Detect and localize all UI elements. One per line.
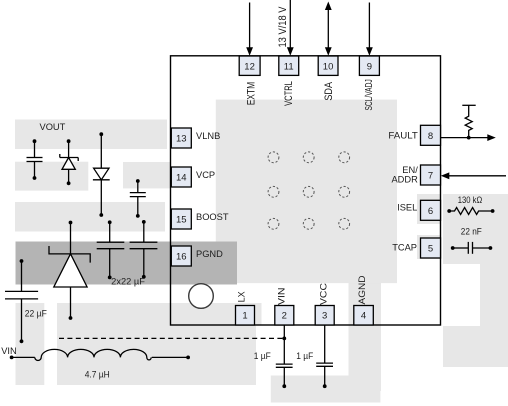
PCB copper pour regions (background shading) — [15, 100, 508, 403]
pin 12 box — [239, 56, 260, 75]
capacitor 22 nF on TCAP — [453, 247, 469, 249]
svg-text:5: 5 — [428, 244, 433, 255]
arrowhead pin 9 — [366, 47, 373, 56]
arrowhead pin 12 — [246, 47, 253, 56]
wire arrow into SCL/VADJ pin 9 — [368, 3, 370, 49]
wire FAULT output — [441, 137, 489, 139]
wire VCC pin 3 down — [324, 325, 326, 363]
dot 1uF VIN bottom — [282, 384, 286, 388]
svg-text:14: 14 — [176, 173, 187, 184]
capacitor 1 uF at VCC — [316, 362, 333, 364]
pin 1 box — [236, 306, 255, 326]
copper region AGND column — [349, 283, 382, 391]
svg-text:7: 7 — [428, 171, 433, 182]
schottky diode (output rectifier) — [70, 223, 72, 254]
dot 22nF right — [489, 246, 493, 250]
pin 14 box — [171, 167, 191, 187]
copper region bottom-left E — [57, 303, 256, 385]
svg-text:8: 8 — [428, 131, 433, 142]
svg-text:VCP: VCP — [196, 170, 215, 180]
copper region dark PGND band — [16, 242, 238, 285]
svg-text:10: 10 — [323, 61, 334, 72]
resistor pull-up on FAULT — [465, 105, 472, 137]
dot diode bottom — [99, 213, 103, 217]
svg-text:SDA: SDA — [323, 81, 335, 100]
svg-text:22 nF: 22 nF — [461, 227, 482, 237]
copper patch pin 6 — [417, 194, 440, 224]
pin 8 box — [421, 125, 441, 145]
dot resistor right — [491, 209, 495, 213]
svg-text:PGND: PGND — [196, 249, 223, 259]
copper region right side — [443, 194, 508, 367]
wire double arrow SDA pin 10 — [327, 9, 329, 49]
copper region strip behind pins 1-3 — [172, 303, 262, 325]
copper region band C — [15, 202, 165, 232]
via row1 — [268, 152, 279, 163]
dot diode top — [99, 132, 103, 136]
copper region bottom block — [271, 376, 381, 403]
capacitor 22 uF input — [21, 261, 23, 291]
pin 5 box — [421, 238, 441, 258]
svg-text:4.7 µH: 4.7 µH — [85, 370, 110, 380]
svg-text:VIN: VIN — [276, 288, 286, 306]
pin 2 box — [275, 306, 294, 326]
inductor 4.7 uH — [35, 349, 151, 360]
IC body outline — [171, 56, 441, 325]
dot resistor left — [447, 209, 451, 213]
copper region thermal pad inner block — [216, 100, 397, 284]
arrowhead FAULT right — [487, 134, 496, 141]
junction dot FAULT pullup — [467, 136, 471, 140]
svg-text:9: 9 — [367, 61, 372, 72]
svg-text:3: 3 — [322, 311, 327, 322]
svg-text:16: 16 — [176, 252, 187, 263]
dot zener top — [67, 139, 71, 143]
svg-text:13: 13 — [176, 134, 187, 145]
capacitor 2x22 uF (A) — [109, 222, 111, 242]
dot cap BOOST bottom — [136, 214, 140, 218]
svg-text:TCAP: TCAP — [392, 243, 417, 253]
wire VIN pin 2 down — [283, 325, 285, 364]
dot zener bottom — [67, 181, 71, 185]
svg-text:ISEL: ISEL — [397, 203, 417, 213]
supply T-bar — [462, 104, 475, 106]
pin 6 box — [421, 200, 441, 220]
copper region band B — [15, 162, 88, 191]
svg-text:1 µF: 1 µF — [296, 351, 314, 361]
capacitor 1 uF at VIN — [276, 363, 293, 365]
LX pad circle — [189, 284, 214, 309]
dot 22nF left — [451, 246, 455, 250]
svg-text:BOOST: BOOST — [196, 212, 229, 222]
pin 16 box — [171, 246, 191, 266]
via row2 — [268, 186, 279, 197]
svg-text:AGND: AGND — [357, 275, 367, 304]
arrowhead EN/ADDR left — [441, 172, 450, 179]
svg-text:FAULT: FAULT — [388, 131, 418, 141]
dot 2x22 B bottom — [142, 275, 146, 279]
resistor 130 kOhm on ISEL — [449, 208, 492, 215]
svg-text:130 kΩ: 130 kΩ — [458, 195, 483, 205]
svg-text:4: 4 — [361, 311, 366, 322]
dashed boundary wire to VIN node — [59, 337, 284, 339]
svg-text:EXTM: EXTM — [246, 82, 258, 105]
copper region VOUT band — [15, 120, 167, 150]
svg-text:1 µF: 1 µF — [254, 351, 272, 361]
copper patch pin 5 — [417, 235, 440, 259]
dot cap VLNB top — [33, 139, 37, 143]
pin 4 box — [354, 306, 374, 326]
svg-text:VLNB: VLNB — [196, 131, 220, 141]
svg-text:15: 15 — [176, 215, 187, 226]
via row3 — [268, 218, 279, 229]
dot cap VLNB bottom — [33, 176, 37, 180]
dot schottky bottom — [69, 316, 73, 320]
dot 2x22 A top — [108, 220, 112, 224]
svg-text:22 µF: 22 µF — [25, 308, 48, 318]
pin 15 box — [171, 209, 191, 229]
svg-text:13 V/18 V: 13 V/18 V — [277, 6, 289, 48]
svg-text:2: 2 — [282, 311, 287, 322]
wire arrow into VCTRL pin 11 — [289, 0, 291, 49]
pin 3 box — [315, 306, 334, 326]
dot cap BOOST top — [136, 179, 140, 183]
svg-text:ADDR: ADDR — [391, 175, 418, 185]
wire input to EN/ADDR pin 7 — [449, 175, 506, 177]
svg-text:2x22 µF: 2x22 µF — [111, 277, 145, 287]
capacitor C BOOST (x 137.8) — [137, 181, 139, 193]
svg-text:12: 12 — [244, 61, 255, 72]
pin 13 box — [171, 128, 191, 148]
svg-text:VCC: VCC — [318, 283, 328, 305]
capacitor 2x22 uF (B) — [143, 222, 145, 242]
wire VIN input — [12, 356, 35, 358]
dot 22uF bottom — [20, 339, 24, 343]
dot 2x22 A bottom — [108, 276, 112, 280]
dot 1uF VCC bottom — [323, 384, 327, 388]
zener diode (left column 2) — [68, 141, 70, 157]
svg-text:SCL/VADJ: SCL/VADJ — [364, 79, 375, 110]
copper region strip under 22uF — [16, 303, 45, 385]
pin 11 box — [279, 56, 299, 75]
svg-text:LX: LX — [237, 291, 247, 302]
pin 9 box — [359, 56, 379, 75]
dot 22uF top — [20, 259, 24, 263]
svg-text:6: 6 — [428, 206, 433, 217]
svg-text:1: 1 — [242, 311, 247, 322]
dot VIN input — [10, 356, 14, 360]
wire arrow into EXTM pin 12 — [249, 3, 251, 49]
dot schottky top — [69, 221, 73, 225]
junction dot VIN node dashed — [282, 337, 286, 341]
thermal vias 3x3 dashed circles — [268, 152, 350, 229]
dot 2x22 B top — [142, 220, 146, 224]
svg-text:EN/: EN/ — [402, 165, 418, 175]
svg-text:VIN: VIN — [1, 346, 17, 356]
pin 7 box — [421, 165, 441, 185]
dot inductor right — [186, 356, 190, 360]
svg-text:VOUT: VOUT — [40, 122, 66, 132]
capacitor C VLNB (left column 1) — [34, 141, 36, 157]
svg-text:VCTRL: VCTRL — [283, 81, 295, 106]
wire inductor to LX node — [152, 356, 188, 358]
diode (left column 3, cathode down) — [100, 134, 102, 168]
copper region band B2 — [123, 162, 170, 188]
arrowhead pin 10 up — [325, 2, 332, 11]
arrowhead pin 10 down — [325, 47, 332, 56]
pin 10 box — [318, 56, 338, 75]
svg-text:11: 11 — [284, 61, 294, 72]
arrowhead pin 11 — [287, 47, 294, 56]
